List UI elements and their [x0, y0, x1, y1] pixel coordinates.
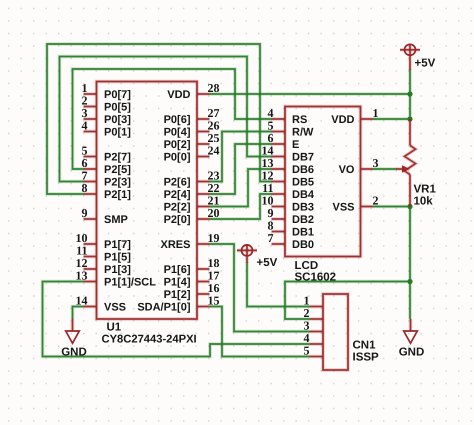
wire net SCL: U1 pin13 P1[1]/SCL to CN1 pin4: [43, 282, 311, 357]
wire LCD pin2 VSS to rail: [373, 205, 411, 209]
svg-text:P0[3]: P0[3]: [104, 114, 131, 126]
svg-text:24: 24: [208, 143, 220, 157]
svg-text:P1[5]: P1[5]: [104, 252, 131, 264]
wire net RS: U1 pin6 P2[5] to LCD RS: [73, 69, 272, 169]
wire VDD rail: U1 pin28 to +5V rail: [210, 92, 411, 96]
svg-text:VSS: VSS: [104, 302, 126, 314]
svg-text:DB7: DB7: [292, 152, 314, 164]
svg-text:P2[4]: P2[4]: [164, 189, 191, 201]
ground symbol GND (left, U1 VSS): [71, 319, 75, 332]
svg-text:CN1: CN1: [353, 340, 377, 352]
svg-text:VSS: VSS: [332, 202, 354, 214]
wire net DB5: U1 pin8 P2[1] to LCD DB5: [47, 44, 272, 194]
svg-text:RS: RS: [292, 114, 307, 126]
connector CN1 ISSP body: [323, 294, 348, 370]
U1 pin 3 P0[3]: [84, 117, 97, 121]
svg-text:DB4: DB4: [292, 189, 315, 201]
svg-text:XRES: XRES: [161, 239, 191, 251]
svg-text:VR1: VR1: [414, 184, 437, 196]
U1 pin 13 P1[1]/SCL: [84, 280, 97, 284]
svg-text:SMP: SMP: [104, 214, 128, 226]
svg-text:P1[7]: P1[7]: [104, 239, 131, 251]
LCD pin 1 VDD: [361, 117, 373, 121]
U1 pin 11 P1[5]: [84, 255, 97, 259]
CN1 pin 5: [310, 355, 323, 359]
svg-text:28: 28: [208, 81, 220, 95]
LCD pin 7 DB0: [272, 242, 286, 246]
wire U1 pin14 VSS to GND symbol: [73, 307, 84, 319]
svg-text:P0[7]: P0[7]: [104, 89, 131, 101]
U1 pin 14 VSS: [84, 305, 97, 309]
wire net DB6: U1 pin21 P2[2] to LCD DB6: [210, 169, 272, 207]
svg-text:1: 1: [373, 106, 379, 120]
svg-text:DB2: DB2: [292, 214, 314, 226]
resistor VR1 wiper arrow: [396, 167, 403, 171]
svg-text:+5V: +5V: [415, 58, 436, 70]
LCD pin 12 DB5: [272, 180, 286, 184]
svg-text:VDD: VDD: [167, 89, 190, 101]
U1 pin 21 P2[2]: [197, 205, 210, 209]
svg-text:P0[4]: P0[4]: [164, 127, 191, 139]
U1 pin 24 P0[0]: [197, 155, 210, 159]
LCD pin 11 DB4: [272, 192, 286, 196]
CN1 pin 2: [310, 317, 323, 321]
wire net DB7: U1 pin7 P2[3] to LCD DB7: [60, 57, 272, 182]
svg-text:U1: U1: [107, 322, 122, 334]
svg-text:9: 9: [82, 206, 88, 220]
svg-text:P1[6]: P1[6]: [164, 264, 191, 276]
wire net E: U1 pin22 P2[4] to LCD E: [210, 144, 272, 194]
U1 pin 8 P2[1]: [84, 192, 97, 196]
U1 pin 7 P2[3]: [84, 180, 97, 184]
CN1 pin 4: [310, 342, 323, 346]
junction GND branch: [407, 279, 412, 284]
U1 pin 5 P2[7]: [84, 155, 97, 159]
svg-text:5: 5: [304, 343, 310, 357]
U1 pin 10 P1[7]: [84, 242, 97, 246]
svg-text:VDD: VDD: [331, 114, 354, 126]
wire +5V P2 symbol to CN1 pin1: [247, 263, 310, 307]
LCD pin 3 VO: [361, 167, 373, 171]
U1 pin 18 P1[6]: [197, 267, 210, 271]
svg-text:+5V: +5V: [257, 257, 278, 269]
CN1 pin 3: [310, 330, 323, 334]
svg-text:4: 4: [82, 118, 88, 132]
U1 pin 23 P2[6]: [197, 180, 210, 184]
svg-text:20: 20: [208, 206, 220, 220]
resistor VR1 zigzag body: [405, 146, 416, 175]
power +5V symbol P1 (top right): [405, 44, 416, 55]
LCD module SC1602 body: [285, 107, 361, 257]
LCD pin 2 VSS: [361, 205, 373, 209]
svg-text:P2[6]: P2[6]: [164, 177, 191, 189]
resistor VR1 bottom lead: [408, 175, 412, 207]
U1 pin 19 XRES: [197, 242, 210, 246]
svg-text:P1[4]: P1[4]: [164, 277, 191, 289]
svg-text:3: 3: [373, 156, 379, 170]
U1 pin 22 P2[4]: [197, 192, 210, 196]
svg-text:E: E: [292, 139, 299, 151]
U1 pin 17 P1[4]: [197, 280, 210, 284]
junction LCD VSS: [407, 204, 412, 209]
CN1 pin 1: [310, 305, 323, 309]
svg-text:2: 2: [373, 193, 379, 207]
svg-text:10k: 10k: [414, 196, 434, 208]
junction LCD VDD: [407, 116, 412, 121]
LCD pin 13 DB6: [272, 167, 286, 171]
U1 pin 6 P2[5]: [84, 167, 97, 171]
svg-text:P2[0]: P2[0]: [164, 214, 191, 226]
U1 pin 16 P1[2]: [197, 292, 210, 296]
svg-text:14: 14: [76, 293, 88, 307]
svg-text:P2[3]: P2[3]: [104, 177, 131, 189]
svg-text:P0[0]: P0[0]: [164, 152, 191, 164]
wire net SDA: U1 pin15 SDA/P1[0] to CN1 pin5: [210, 307, 311, 357]
wire +5V vertical from +5V P1 symbol down to LCD VDD junction: [408, 70, 412, 120]
svg-text:LCD: LCD: [295, 260, 319, 272]
U1 pin 25 P0[2]: [197, 142, 210, 146]
U1 pin 15 SDA/P1[0]: [197, 305, 210, 309]
svg-text:P2[2]: P2[2]: [164, 202, 191, 214]
resistor VR1 top lead: [408, 119, 412, 146]
LCD pin 14 DB7: [272, 155, 286, 159]
U1 pin 2 P0[5]: [84, 105, 97, 109]
svg-text:GND: GND: [399, 347, 425, 359]
U1 pin 4 P0[1]: [84, 130, 97, 134]
IC U1 CY8C27443-24PXI body: [97, 82, 198, 320]
svg-text:VO: VO: [339, 164, 355, 176]
svg-text:P1[3]: P1[3]: [104, 264, 131, 276]
U1 pin 27 P0[6]: [197, 117, 210, 121]
svg-text:SDA/P1[0]: SDA/P1[0]: [137, 302, 191, 314]
svg-text:DB5: DB5: [292, 177, 314, 189]
svg-text:P0[5]: P0[5]: [104, 102, 131, 114]
svg-text:P2[1]: P2[1]: [104, 189, 131, 201]
svg-text:P1[1]/SCL: P1[1]/SCL: [104, 277, 156, 289]
svg-text:R/W: R/W: [292, 127, 314, 139]
junction VDD rail / +5V: [407, 91, 412, 96]
U1 pin 1 P0[7]: [84, 92, 97, 96]
svg-text:GND: GND: [61, 347, 87, 359]
LCD pin 5 R/W: [272, 130, 286, 134]
LCD pin 6 E: [272, 142, 286, 146]
svg-text:P2[7]: P2[7]: [104, 152, 131, 164]
wire LCD pin3 VO to VR1 wiper: [373, 167, 397, 171]
wire net R/W: U1 pin23 P2[6] to LCD R/W: [210, 132, 272, 182]
U1 pin 12 P1[3]: [84, 267, 97, 271]
power +5V symbol P2 (middle): [242, 245, 253, 256]
LCD pin 4 RS: [272, 117, 286, 121]
wire VSS vertical rail down to GND: [408, 207, 412, 320]
LCD pin 9 DB2: [272, 217, 286, 221]
svg-text:DB0: DB0: [292, 239, 314, 251]
svg-text:P0[1]: P0[1]: [104, 127, 131, 139]
svg-text:DB3: DB3: [292, 202, 314, 214]
LCD pin 8 DB1: [272, 230, 286, 234]
U1 pin 28 VDD: [197, 92, 210, 96]
wire GND branch to CN1 pin2: [285, 282, 410, 320]
wire net XRES: U1 pin19 to CN1 pin3: [210, 244, 311, 332]
svg-text:SC1602: SC1602: [295, 272, 337, 284]
svg-text:P0[2]: P0[2]: [164, 139, 191, 151]
ground symbol GND (right): [409, 319, 413, 331]
svg-text:DB1: DB1: [292, 227, 314, 239]
svg-text:DB6: DB6: [292, 164, 314, 176]
svg-text:13: 13: [76, 268, 88, 282]
wire net DB4: U1 pin20 P2[0] to LCD DB4: [210, 194, 272, 219]
svg-text:P1[2]: P1[2]: [164, 289, 191, 301]
LCD pin 10 DB3: [272, 205, 286, 209]
svg-text:19: 19: [208, 231, 220, 245]
wire LCD pin1 VDD to rail: [373, 117, 411, 121]
U1 pin 20 P2[0]: [197, 217, 210, 221]
U1 pin 9 SMP: [84, 217, 97, 221]
svg-text:CY8C27443-24PXI: CY8C27443-24PXI: [102, 334, 197, 346]
svg-text:8: 8: [82, 181, 88, 195]
svg-text:7: 7: [268, 231, 274, 245]
U1 pin 26 P0[4]: [197, 130, 210, 134]
svg-text:15: 15: [208, 293, 220, 307]
svg-text:ISSP: ISSP: [353, 352, 380, 364]
svg-text:P0[6]: P0[6]: [164, 114, 191, 126]
svg-text:P2[5]: P2[5]: [104, 164, 131, 176]
